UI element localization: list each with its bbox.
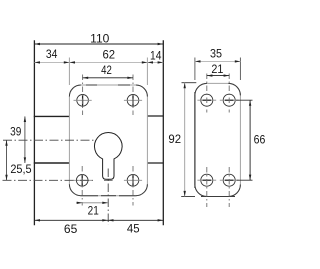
- keyhole (cylinder): [94, 133, 122, 180]
- screw hole top-left: [77, 95, 89, 107]
- svg-text:42: 42: [101, 65, 112, 77]
- dim 21 line (front, under plate): [76, 202, 108, 204]
- svg-text:45: 45: [127, 224, 140, 236]
- dim 34 line: [34, 61, 69, 63]
- plate top edge dark dashes: [86, 84, 97, 86]
- svg-text:35: 35: [210, 48, 222, 60]
- dim 35 extension lines: [194, 58, 196, 81]
- keeper hole bottom-right: [223, 174, 235, 186]
- keeper plate left edge (dark): [194, 92, 196, 188]
- svg-text:21: 21: [211, 64, 223, 76]
- dim 66 extension lines: [236, 99, 253, 101]
- hole column centerline left (vertical dash-dot): [82, 75, 84, 116]
- keyhole axis centerline (vertical dash-dot): [107, 169, 109, 225]
- svg-text:25,5: 25,5: [10, 164, 31, 176]
- svg-text:14: 14: [150, 51, 162, 63]
- dim 21 line (side): [207, 75, 229, 77]
- plate edge extension lines above (gray): [68, 58, 70, 86]
- bolt axis centerline (horizontal dash-dot): [3, 139, 95, 141]
- dim 35 line: [195, 60, 241, 62]
- hole column centerline right (vertical dash-dot): [132, 75, 134, 116]
- slide knob bottom edge (right of plate): [147, 162, 163, 164]
- slide right end line (also extension for 110/14/45 dims): [162, 40, 164, 225]
- keeper hole column centerline left: [206, 74, 208, 113]
- dim 92 extension lines: [182, 82, 197, 84]
- keeper hole top-right: [223, 94, 235, 106]
- svg-text:65: 65: [64, 224, 77, 236]
- dim 65/45 line (bottom): [34, 219, 163, 221]
- keeper bottom edge (dark): [201, 196, 235, 198]
- svg-text:92: 92: [168, 134, 181, 146]
- svg-text:39: 39: [10, 126, 21, 138]
- svg-text:34: 34: [46, 49, 58, 61]
- lock plate outline (front): [69, 85, 147, 196]
- plate corner arcs (darker): [69, 85, 81, 97]
- svg-text:21: 21: [88, 206, 99, 218]
- bolt left end line (also extension for 110/34/65 dims): [33, 40, 35, 225]
- dim 25,5 line (vertical): [6, 140, 8, 180]
- keeper plate outline: [195, 83, 241, 196]
- keeper hole top-left: [201, 94, 213, 106]
- dim 42 line: [83, 77, 133, 79]
- keeper hole bottom-left: [201, 174, 213, 186]
- dim 110 line: [34, 43, 163, 45]
- screw hole bottom-right: [127, 175, 139, 187]
- dim 14 line (arrows outside): [147, 61, 163, 63]
- keeper plate corner arcs (darker): [195, 83, 207, 95]
- keeper hole column centerline right: [228, 74, 230, 113]
- bolt bottom edge: [34, 162, 70, 164]
- lower holes centerline (horizontal dash-dot): [3, 179, 96, 181]
- bolt top edge: [34, 115, 70, 117]
- plate bottom edge dark dashes: [81, 195, 98, 197]
- dim 62 line: [69, 61, 147, 63]
- dim 66 line (vertical): [249, 100, 251, 180]
- dim 39 line (vertical): [24, 116, 26, 163]
- svg-text:66: 66: [254, 134, 266, 146]
- svg-text:62: 62: [103, 50, 116, 62]
- screw hole bottom-left: [76, 175, 88, 187]
- dim 92 line (vertical): [184, 83, 186, 197]
- screw hole top-right: [127, 95, 139, 107]
- slide knob top edge (right of plate): [147, 115, 163, 117]
- svg-text:110: 110: [90, 33, 109, 45]
